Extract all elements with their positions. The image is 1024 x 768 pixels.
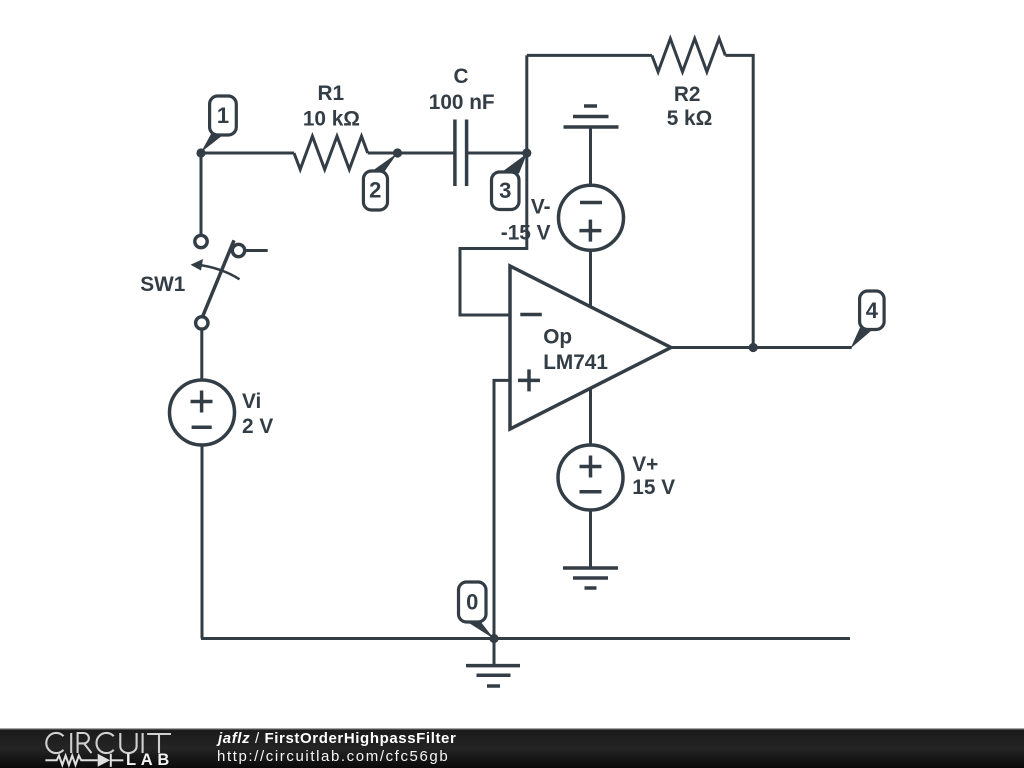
- svg-text:R1: R1: [318, 82, 345, 105]
- svg-text:LM741: LM741: [543, 351, 608, 374]
- svg-text:5 kΩ: 5 kΩ: [667, 107, 713, 130]
- svg-text:V-: V-: [531, 196, 551, 219]
- svg-text:SW1: SW1: [140, 273, 185, 296]
- svg-text:2 V: 2 V: [242, 415, 273, 438]
- svg-text:C: C: [453, 65, 468, 88]
- svg-text:1: 1: [217, 103, 229, 128]
- svg-text:jaflz / FirstOrderHighpassFilt: jaflz / FirstOrderHighpassFilter: [216, 730, 456, 747]
- svg-text:15 V: 15 V: [632, 476, 675, 499]
- svg-text:3: 3: [499, 178, 511, 203]
- svg-text:-15 V: -15 V: [501, 221, 551, 244]
- svg-text:0: 0: [466, 590, 478, 615]
- svg-text:10 kΩ: 10 kΩ: [303, 108, 360, 131]
- svg-text:R2: R2: [674, 83, 701, 106]
- svg-text:http://circuitlab.com/cfc56gb: http://circuitlab.com/cfc56gb: [217, 748, 449, 765]
- svg-text:LAB: LAB: [126, 751, 174, 768]
- svg-text:4: 4: [866, 298, 879, 323]
- svg-text:2: 2: [369, 178, 381, 203]
- svg-text:V+: V+: [632, 453, 658, 476]
- svg-text:Vi: Vi: [242, 390, 261, 413]
- svg-text:Op: Op: [543, 326, 572, 349]
- svg-text:100 nF: 100 nF: [429, 91, 495, 114]
